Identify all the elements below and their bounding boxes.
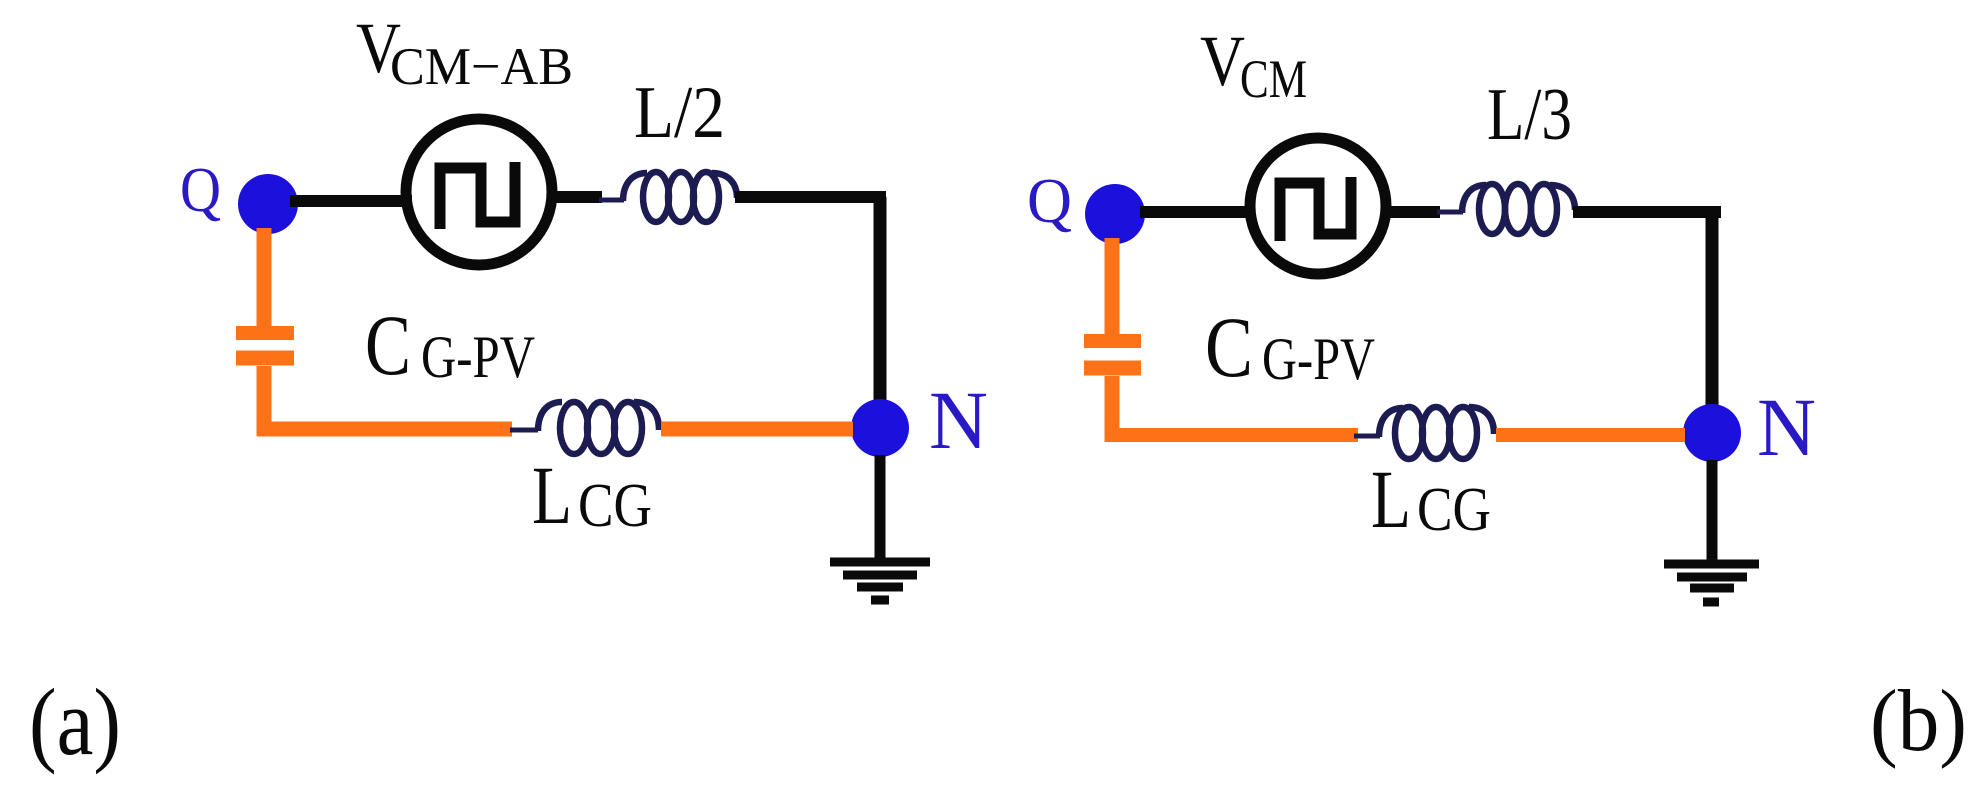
node Q junction dot — [1085, 184, 1145, 244]
svg-text:Q: Q — [180, 155, 221, 225]
svg-text:G-PV: G-PV — [421, 324, 535, 390]
svg-text:CM: CM — [1240, 49, 1307, 109]
wire corner down to N — [874, 197, 887, 427]
svg-text:C: C — [365, 297, 411, 393]
ground symbol — [830, 562, 930, 600]
svg-text:L/3: L/3 — [1487, 74, 1572, 156]
capacitor C_G-PV plates — [1084, 334, 1141, 348]
voltage source U1 circle — [406, 119, 552, 265]
svg-text:(b): (b) — [1870, 673, 1967, 770]
svg-text:(a): (a) — [29, 669, 121, 775]
inductor L_CG lead-in — [1354, 434, 1380, 439]
wire corner down to N — [1706, 212, 1719, 432]
capacitor C_G-PV plates — [236, 326, 294, 340]
wire Q down to capacitor — [1105, 238, 1120, 336]
svg-text:G-PV: G-PV — [1262, 326, 1375, 392]
voltage source U2 circle — [1250, 138, 1386, 274]
square-wave glyph inside source — [1280, 177, 1351, 241]
square-wave glyph inside source — [440, 162, 515, 229]
inductor L/3 coil — [1462, 184, 1575, 234]
ground symbol — [1664, 564, 1759, 602]
wire N to ground — [1707, 460, 1718, 566]
wire N to ground — [875, 455, 886, 564]
svg-text:L: L — [1371, 453, 1411, 545]
wire inductor to corner — [1573, 206, 1721, 218]
wire Q down to capacitor — [257, 228, 272, 328]
svg-text:L: L — [532, 449, 572, 541]
svg-text:Q: Q — [1027, 166, 1072, 236]
bottom wire inductor to N — [1496, 428, 1685, 442]
inductor L/3 lead-in — [1437, 210, 1463, 215]
inductor L_CG coil — [1379, 407, 1494, 459]
wire Q to source — [1140, 206, 1255, 218]
svg-text:CG: CG — [578, 472, 652, 540]
wire capacitor down to corner — [257, 366, 272, 436]
svg-text:L/2: L/2 — [634, 72, 725, 154]
svg-text:V: V — [1200, 21, 1245, 101]
svg-text:N: N — [929, 374, 988, 466]
wire capacitor down to corner — [1105, 376, 1120, 442]
svg-text:CM−AB: CM−AB — [390, 38, 573, 96]
wire source to inductor — [1384, 206, 1440, 218]
node N junction dot — [851, 399, 909, 457]
node Q junction dot — [238, 174, 298, 234]
inductor L_CG coil — [538, 402, 659, 454]
svg-text:CG: CG — [1417, 476, 1491, 544]
wire Q to source — [290, 195, 412, 207]
bottom wire inductor to N — [661, 422, 853, 437]
wire source to inductor — [551, 191, 602, 203]
wire inductor to corner — [735, 191, 886, 203]
svg-text:C: C — [1205, 299, 1253, 395]
inductor L/2 lead-in — [599, 198, 624, 203]
inductor L/2 coil — [623, 172, 737, 222]
bottom wire to inductor — [1105, 428, 1358, 442]
inductor L_CG lead-in — [510, 428, 538, 433]
node N junction dot — [1683, 404, 1741, 462]
svg-text:N: N — [1757, 381, 1816, 473]
bottom wire to inductor — [257, 422, 512, 437]
